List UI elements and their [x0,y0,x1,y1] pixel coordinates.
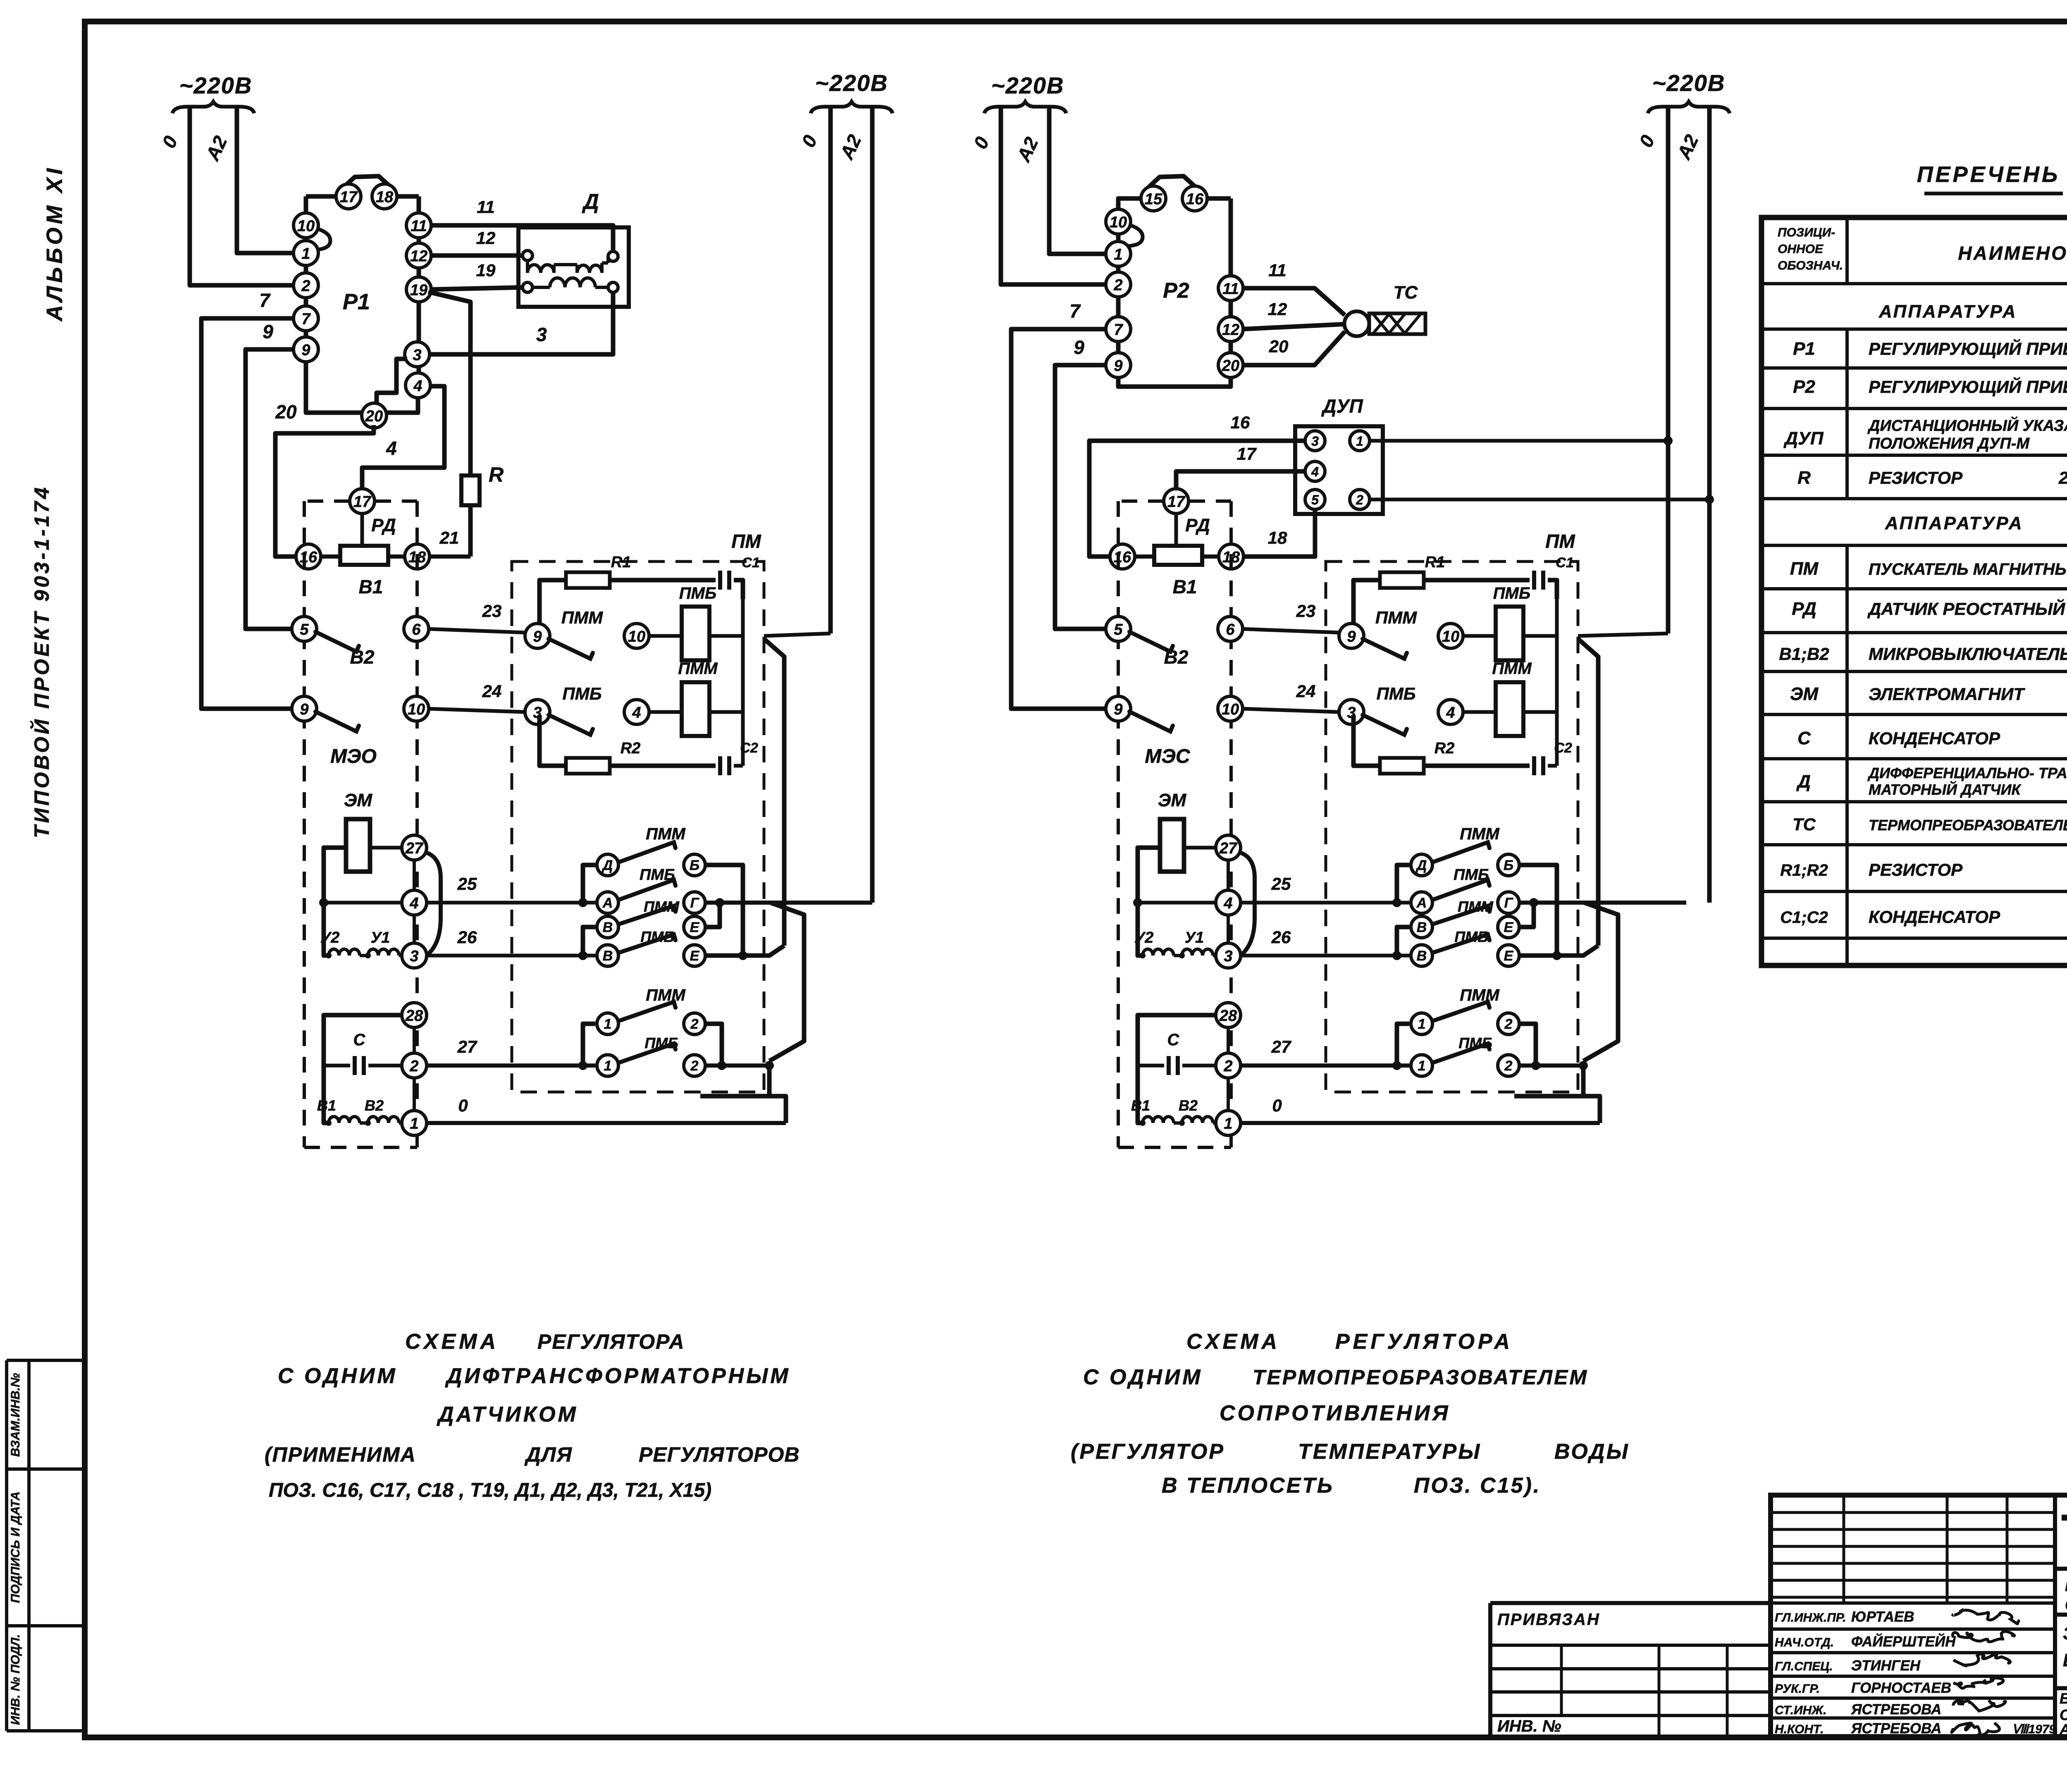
svg-text:КОНДЕНСАТОР: КОНДЕНСАТОР [1869,907,2000,927]
rheostat RD body (c2) [1154,515,1210,565]
contact blade D-B (dx=1969) [1433,842,1489,862]
resistor R2 branch wire (dx=0) [539,715,743,766]
svg-text:25: 25 [1271,874,1291,894]
contact PMB blade row24 (dx=0) [549,715,593,735]
branch link right (B row) (dx=0) [705,865,747,960]
net ~220V label (circuit 1 left) [172,72,254,113]
table band Apparatura na schite upravleniya [1878,301,2067,322]
svg-text:ПУСКАТЕЛЬ МАГНИТНЫЙ ПМЕ-083,: ПУСКАТЕЛЬ МАГНИТНЫЙ ПМЕ-083,~220В [1869,559,2067,578]
svg-text:РЕГУЛЯТОРА: РЕГУЛЯТОРА [1335,1330,1513,1354]
microswitch V1 row: pin 6 [404,616,429,641]
svg-text:11: 11 [477,197,495,217]
svg-text:4: 4 [1446,704,1455,722]
wire 25 (dx=1969) [1239,874,1409,907]
svg-text:ТС: ТС [1793,815,1816,834]
svg-text:НАЧ.ОТД.: НАЧ.ОТД. [1775,1636,1834,1649]
wire 0 bus (circuit 2 left) [969,107,1107,284]
svg-text:16: 16 [1231,413,1250,432]
wire DUP pin2 to bus A2 [1370,495,1714,504]
table row TC [1793,815,2067,834]
svg-text:2: 2 [1223,1058,1232,1075]
svg-text:ЭМ: ЭМ [1790,684,1819,704]
wire R to node 21 [468,505,473,557]
pin 2 (P1) [294,273,318,298]
wire 24 (c2) [1241,681,1339,712]
pin 20 (P2) [1218,353,1243,378]
wire DUP pin1 to bus 0 [1370,436,1673,445]
signature scribble 2 [1952,1632,2014,1642]
svg-text:ПММ: ПММ [646,825,686,843]
wire RD16 [321,554,340,559]
svg-text:С1;С2: С1;С2 [1780,908,1828,927]
table row PM [1790,559,2067,579]
contact G (dx=1969) [1498,892,1519,913]
svg-text:С ОДНИМ: С ОДНИМ [278,1364,398,1388]
svg-text:В: В [1417,948,1427,964]
svg-text:РД: РД [1185,515,1210,535]
svg-text:4: 4 [1223,895,1232,912]
label PMM (D-B) (dx=0) [646,825,686,843]
svg-text:18: 18 [1268,528,1287,547]
svg-text:1: 1 [1114,246,1122,263]
wire pin19 diagonal to resistor R [428,292,470,475]
sensor D terminal t2 [523,282,532,292]
svg-text:0: 0 [1272,1096,1282,1115]
svg-text:ИНВ. №: ИНВ. № [1497,1717,1561,1735]
svg-text:Е: Е [1504,948,1514,964]
contact E lower (dx=1969) [1498,945,1519,966]
svg-text:ПММ: ПММ [1460,986,1500,1004]
microswitch V2 label (c2) [1164,646,1189,668]
wire 26 (dx=1969) [1239,927,1409,960]
svg-text:ПМ: ПМ [731,530,761,552]
signature scribble 1 [1953,1609,2019,1624]
svg-text:5: 5 [1114,621,1123,638]
pin 17 (RD) [350,489,375,514]
svg-text:2: 2 [301,277,310,295]
label PMB (V-E) (dx=0) [640,928,674,945]
svg-text:~220В: ~220В [991,72,1065,98]
title block row ГЛ.СПЕЦ. [1775,1658,1921,1674]
svg-text:16: 16 [1186,191,1204,208]
svg-text:АППАРАТУРА: АППАРАТУРА [1878,301,2017,322]
contact 2 upper (dx=1969) [1498,1013,1519,1035]
svg-text:РД: РД [371,515,396,535]
title block row СТ.ИНЖ. [1775,1701,1941,1718]
svg-text:18: 18 [376,189,394,206]
pin 28 (actuator) (dx=0) [402,1003,427,1027]
branch link left (D row) (dx=1969) [1397,865,1409,903]
branch link right (1-2) (dx=0) [705,1024,726,1070]
wire 0 bus (circuit 1 right) [797,107,831,633]
caption schematic 2 line 5 [1162,1474,1541,1498]
svg-text:19: 19 [476,260,496,280]
svg-text:1: 1 [301,245,310,263]
svg-text:10: 10 [1110,214,1127,231]
starter PM dashed box (dx=0) [512,530,764,1092]
capacitor C1 (dx=0) [720,555,760,590]
svg-text:Ⅷ1979: Ⅷ1979 [2012,1723,2056,1736]
svg-text:(РЕГУЛЯТОР: (РЕГУЛЯТОР [1071,1440,1225,1464]
table title Perechen apparatury [1917,162,2067,194]
svg-text:(ПРИМЕНИМА: (ПРИМЕНИМА [265,1443,416,1466]
wire 27 row right extension (dx=0) [705,1063,769,1068]
margin text Tipovoy proekt 903-1-174 [30,485,53,838]
wire E row right diagonal to v1 (dx=1969) [1519,946,1598,956]
svg-text:10: 10 [408,701,425,718]
contact blade V-E upper (dx=0) [619,906,675,924]
svg-text:ПММ: ПММ [1460,825,1500,843]
svg-text:10: 10 [297,217,315,235]
resistor R1 branch wire (dx=1969) [1353,580,1557,628]
svg-text:12: 12 [1268,299,1287,319]
contact PMB pin 3 (dx=1969) [1339,700,1364,724]
branch link right (E row) (dx=1969) [1519,898,1538,927]
contact blade 1-2 lower (dx=0) [619,1044,675,1063]
svg-text:В1;В2: В1;В2 [1779,644,1829,664]
caption schematic 2 line 2 [1083,1365,1588,1389]
wire A2 bus (circuit 1 left) [201,107,295,253]
capacitor C (actuator) (dx=1969) [1138,1031,1217,1075]
label PMM (V-E) (dx=1969) [1458,898,1494,915]
title kotelnaya line [2055,1577,2067,1615]
wire pin4 to pin20 (P1) [387,398,418,413]
svg-text:25: 25 [457,874,477,894]
contact blade A-G (dx=1969) [1433,880,1489,900]
svg-text:2кОМ;: 2кОМ; [2058,468,2067,487]
wire 23 [427,601,526,633]
wire 19 (P1 to sensor D) [430,260,523,289]
svg-text:ПОЗИЦИ-: ПОЗИЦИ- [1778,226,1835,239]
electromagnet EM (dx=0) [344,790,373,872]
contact PMM pin 10 (dx=1969) [1438,624,1463,648]
svg-text:7: 7 [1114,321,1123,339]
wire 7 (P2 pin7 to switch V2) [1011,300,1107,709]
wire 11 (P1 to sensor D) [430,197,599,225]
microswitch V2 label [350,646,375,668]
pin 1 (actuator) (dx=0) [402,1111,427,1135]
svg-text:7: 7 [259,289,271,311]
wire 20 (P2 to TC) [1242,332,1345,365]
contact PMM pin 9 (dx=0) [525,624,550,648]
svg-text:ПОДПИСЬ И ДАТА: ПОДПИСЬ И ДАТА [9,1491,22,1603]
wire EM to pin27 (dx=0) [370,846,403,850]
contact PMB label row24 (dx=0) [563,684,602,703]
svg-text:У2: У2 [320,929,340,946]
stadiya list listov header [2055,1615,2067,1688]
wire pin9 down to pin20 (P1) [306,362,361,413]
svg-text:1: 1 [1356,434,1363,449]
wire 12 (P1 to sensor D) [430,228,523,256]
pin 17 (RD c2) [1164,489,1189,514]
svg-text:ВСПОМОГАТЕЛЬНОЕ ОБОРУДОВАНИЕ .: ВСПОМОГАТЕЛЬНОЕ ОБОРУДОВАНИЕ . [2060,1690,2067,1707]
svg-text:С1: С1 [742,555,759,571]
svg-text:С ОДНИМ: С ОДНИМ [1083,1365,1203,1389]
wire 18 (DUP pin5 to RD18) [1244,509,1315,557]
net ~220V label (circuit 1 right) [811,70,893,113]
microswitch V1 blade [315,632,359,652]
svg-text:Н.КОНТ.: Н.КОНТ. [1775,1723,1824,1736]
wire 21 (RD pin18 to R) [430,528,470,557]
wire 23 (c2) [1241,601,1340,633]
label PMB (A-G) (dx=0) [640,866,675,884]
wire coil PMM to rail (dx=0) [709,710,743,714]
pin 10 (P2) [1106,209,1131,234]
contact E upper (dx=1969) [1498,916,1519,938]
pin 3 (DUP) [1305,431,1325,451]
wire 11 (P2 to TC) [1242,260,1345,315]
wire 2-lower right down-hook (dx=1969) [1514,1061,1588,1096]
caption schematic 2 line 4 [1071,1440,1630,1464]
wire 0 row corner up (dx=0) [768,1096,786,1123]
svg-text:R2: R2 [621,740,641,757]
svg-text:4: 4 [1311,464,1319,479]
svg-text:А: А [602,895,613,911]
svg-text:АППАРАТУРА: АППАРАТУРА [1885,513,2024,533]
wire 25 (dx=0) [425,874,595,907]
svg-text:26: 26 [1271,927,1291,947]
contact B (dx=1969) [1498,854,1519,876]
pin 1 (actuator) (dx=1969) [1216,1111,1241,1135]
svg-text:С: С [1797,728,1811,748]
svg-text:R1: R1 [611,554,631,571]
svg-text:ФАЙЕРШТЕЙН: ФАЙЕРШТЕЙН [1851,1633,1956,1650]
contact E upper (dx=0) [684,916,705,938]
wire 9 (P1 pin9 to switch V1) [246,321,295,629]
coil PMM (dx=0) [678,659,718,736]
wire row24 to coil PMM (dx=1969) [1462,710,1496,714]
svg-text:В1: В1 [1131,1097,1150,1114]
wire 27 (row) (dx=1969) [1239,1037,1409,1070]
contact blade A-G (dx=0) [619,880,675,900]
contact PMM blade row23 (dx=1969) [1363,639,1407,659]
pin 3 (P1) [405,342,430,367]
svg-text:РЕЗИСТОР: РЕЗИСТОР [1869,860,1963,879]
svg-text:17: 17 [353,493,372,511]
svg-text:С2: С2 [1554,740,1572,756]
svg-text:ТП903-1-174-АТМ1: ТП903-1-174-АТМ1 [2061,1505,2067,1559]
pin 12 (P1) [406,243,431,268]
svg-text:20: 20 [1269,337,1289,356]
microswitch V1 blade (c2) [1129,632,1173,652]
wire A2 bus (circuit 1 right) [835,107,872,903]
title block row Н.КОНТ. [1775,1720,1941,1737]
svg-text:ПМБ: ПМБ [640,866,675,884]
thermal sensor TC [1344,282,1425,336]
caption schematic 1 line 4 [265,1443,800,1466]
contact D (dx=1969) [1411,854,1432,876]
capacitor C2 (dx=0) [720,740,758,775]
inductor V2 (actuator) (dx=0) [360,1097,403,1126]
title block row ГЛ.ИНЖ.ПР. [1775,1609,1914,1625]
pin 18 (RD c2) [1219,544,1244,569]
RD wiper [360,514,364,547]
wire G row to A2 bus (dx=0) [705,901,872,905]
svg-text:ЭЛЕКТРОМАГНИТ: ЭЛЕКТРОМАГНИТ [1869,684,2025,704]
pin 27 (actuator) (dx=0) [402,835,427,860]
svg-text:СХЕМА: СХЕМА [405,1330,499,1354]
svg-text:9: 9 [300,701,308,718]
svg-text:Д: Д [1415,858,1427,873]
svg-text:9: 9 [533,628,542,645]
svg-text:ДИФФЕРЕНЦИАЛЬНО- ТРАНСФОР-: ДИФФЕРЕНЦИАЛЬНО- ТРАНСФОР- [1867,765,2067,781]
title block row НАЧ.ОТД. [1775,1633,1956,1650]
inductor U1 (dx=0) [360,929,403,958]
svg-text:3: 3 [1311,434,1319,449]
svg-text:МИКРОВЫКЛЮЧАТЕЛЬ: МИКРОВЫКЛЮЧАТЕЛЬ [1869,644,2067,664]
pin 2 (actuator) (dx=0) [402,1053,427,1078]
svg-text:ДУП: ДУП [1321,395,1363,417]
svg-text:В1: В1 [359,576,383,597]
svg-text:В1: В1 [1173,576,1197,597]
svg-text:ИНВ. № ПОДЛ.: ИНВ. № ПОДЛ. [9,1634,22,1725]
wire EM to pin27 (dx=1969) [1184,846,1217,850]
svg-text:15: 15 [1145,191,1162,208]
svg-text:21: 21 [439,528,459,547]
contact PMM label row23 (dx=1969) [1375,608,1417,627]
svg-text:20: 20 [365,408,383,425]
table row V1V2 [1779,644,2067,664]
svg-text:11: 11 [1268,260,1287,280]
contact PMB pin 4 (dx=0) [624,700,649,724]
jog from PM box to long vertical (c2) [1578,639,1598,946]
svg-text:Д: Д [601,858,613,873]
svg-text:ДУП: ДУП [1783,428,1824,449]
contact PMB pin 4 (dx=1969) [1438,700,1463,724]
caption schematic 1 line 5 [269,1479,711,1501]
resistor R1 (dx=1969) [1380,554,1445,588]
wire 24 [427,681,525,712]
wire row24 to coil PMM (dx=0) [648,710,682,714]
svg-text:ВОДЫ: ВОДЫ [1554,1440,1630,1464]
table row C1C2 [1780,907,2067,929]
table row C [1797,728,2000,748]
svg-text:2: 2 [1356,492,1363,507]
pin 7 (P2) [1106,317,1131,342]
pin 3 (actuator) (dx=1969) [1216,943,1241,968]
contact E lower (dx=0) [684,945,705,966]
contact 1 lower (dx=1969) [1411,1055,1432,1076]
table row EM [1790,684,2025,704]
microswitch V2 row: pin 9 (c2) [1106,696,1131,721]
sensor D terminal t4 [608,282,618,292]
label Privyazan [1497,1610,1600,1629]
wire 0 row corner up (dx=1969) [1582,1096,1600,1123]
caption schematic 2 line 3 [1220,1401,1451,1425]
contact PMM pin 9 (dx=1969) [1339,624,1364,648]
net ~220V label (circuit 2 right) [1648,70,1730,113]
svg-text:ПМБ: ПМБ [1377,684,1416,703]
svg-text:9: 9 [301,342,310,359]
svg-text:МАТОРНЫЙ ДАТЧИК: МАТОРНЫЙ ДАТЧИК [1869,781,2022,798]
pin 16 (RD) [296,544,321,569]
table row P2 [1793,376,2067,397]
svg-text:В: В [603,920,613,935]
microswitch V2 blade (c2) [1129,712,1173,731]
svg-text:ПМБ: ПМБ [563,684,602,703]
privyazan sub-table grid [1490,1603,1771,1737]
jog from PM box to long vertical (c1) [764,639,784,946]
inductor V1 (actuator) (dx=1969) [1131,1097,1174,1126]
coil PMB (dx=1969) [1493,584,1530,660]
microswitch V1 row: pin 5 (c2) [1106,616,1131,641]
wire row23 to coil PMB (dx=1969) [1462,634,1496,638]
RD wiper (c2) [1174,514,1178,547]
contact V upper (dx=0) [597,916,618,938]
pin 1 (P2) [1106,241,1131,266]
svg-text:16: 16 [1114,549,1131,566]
pin 18 (RD) [405,544,430,569]
contact blade V-E upper (dx=1969) [1433,906,1489,924]
svg-text:ЗДАНИЕ ИЗ СБОРНЫХ ЖЕЛЕЗО-: ЗДАНИЕ ИЗ СБОРНЫХ ЖЕЛЕЗО- [2063,1623,2067,1644]
contact A (dx=1969) [1411,892,1432,913]
sensor D box [518,190,629,307]
pin 15 (P2) [1141,186,1166,211]
svg-text:РЕЗИСТОР: РЕЗИСТОР [1869,468,1963,487]
pin 10 (P1) [294,213,318,238]
svg-text:ПММ: ПММ [561,608,603,627]
svg-text:В1: В1 [317,1097,336,1114]
signature scribble 3 [1953,1654,2011,1666]
svg-text:R: R [489,463,504,486]
svg-text:РЕГУЛИРУЮЩИЙ ПРИБОР Р25.21 ~22: РЕГУЛИРУЮЩИЙ ПРИБОР Р25.21 ~220В [1869,376,2067,397]
actuator MEO dashed box [304,501,417,1147]
regulator P2 outline [1118,198,1231,387]
svg-text:ПОЗ. С15).: ПОЗ. С15). [1414,1474,1541,1498]
document code TP903-1-174-ATM1 [2055,1505,2067,1569]
svg-text:ПММ: ПММ [1458,898,1494,915]
wire coil PMB to rail (dx=0) [709,634,743,638]
pin 27 (actuator) (dx=1969) [1216,835,1241,860]
pin 7 (P1) [294,306,318,331]
date VII 1979 [2012,1723,2056,1736]
stamp label Vzam.inv.N [9,1373,22,1457]
svg-text:3: 3 [536,324,547,345]
table row D [1796,765,2067,798]
contact G (dx=0) [684,892,705,913]
svg-text:ПММ: ПММ [644,898,680,915]
svg-text:ДАТЧИК РЕОСТАТНЫЙ: ДАТЧИК РЕОСТАТНЫЙ [1867,598,2065,619]
pin 16 (P2) [1182,186,1207,211]
svg-text:27: 27 [1271,1037,1291,1056]
branch link left (1-2) (dx=1969) [1397,1024,1409,1066]
table row P1 [1793,338,2067,359]
branch link right (B row) (dx=1969) [1519,865,1561,960]
contact 2 upper (dx=0) [684,1013,705,1035]
svg-text:ДИФТРАНСФОРМАТОРНЫМ: ДИФТРАНСФОРМАТОРНЫМ [445,1364,791,1388]
contact PMM label row23 (dx=0) [561,608,603,627]
svg-text:Р1: Р1 [1793,339,1815,359]
svg-text:ЯСТРЕБОВА: ЯСТРЕБОВА [1851,1701,1941,1718]
branch link right (1-2) (dx=1969) [1519,1024,1540,1070]
svg-text:ПОЗ. С16, С17, С18 , Т19, Д1: ПОЗ. С16, С17, С18 , Т19, Д1, Д2, Д3, Т2… [269,1479,711,1501]
equipment table grid [1761,217,2067,965]
sensor D wire 11 entry [599,225,613,251]
label PMM (1-2) (dx=0) [646,986,686,1004]
pin 3 (actuator) (dx=0) [402,943,427,968]
svg-text:Е: Е [690,920,700,935]
label Inv. N [1497,1717,1561,1735]
svg-text:3: 3 [413,346,421,364]
branch link left (1-2) (dx=0) [583,1024,595,1066]
svg-text:РД: РД [1792,599,1816,619]
svg-text:24: 24 [482,681,502,701]
svg-text:КОНДЕНСАТОР: КОНДЕНСАТОР [1869,729,2000,748]
svg-text:ПМБ: ПМБ [1493,584,1530,602]
svg-text:В2: В2 [365,1097,384,1114]
contact PMB pin 3 (dx=0) [525,700,550,724]
pin 4 (actuator) (dx=0) [402,890,427,915]
